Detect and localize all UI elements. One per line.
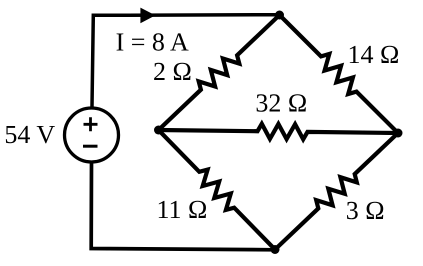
wire: left bottom from source to bottom-left corner, then bottom wire to bottom node bbox=[91, 162, 275, 250]
svg-text:3 Ω: 3 Ω bbox=[346, 196, 385, 225]
svg-text:14 Ω: 14 Ω bbox=[348, 40, 400, 69]
resistor R5 3 ohm (between bottom node and right node) bbox=[275, 133, 398, 250]
svg-text:32 Ω: 32 Ω bbox=[255, 88, 307, 117]
node bottom (junction dot) bbox=[271, 245, 280, 254]
node top (junction dot) bbox=[275, 11, 284, 20]
svg-text:11 Ω: 11 Ω bbox=[157, 195, 208, 224]
current arrow I (on top wire) bbox=[140, 8, 155, 24]
voltage source minus sign bbox=[83, 145, 98, 148]
resistor R1 2 ohm (between left node and top node) bbox=[159, 15, 280, 130]
resistor R4 11 ohm (between left node and bottom node) bbox=[159, 130, 276, 250]
node left (junction dot) bbox=[154, 126, 163, 135]
svg-text:I = 8 A: I = 8 A bbox=[116, 27, 189, 56]
voltage source V1 54 V (circle) bbox=[65, 108, 119, 162]
voltage source plus sign bbox=[84, 117, 98, 131]
svg-text:2 Ω: 2 Ω bbox=[153, 57, 192, 86]
resistor R3 32 ohm (between left node and right node) bbox=[159, 124, 399, 140]
resistor R2 14 ohm (between top node and right node) bbox=[280, 15, 399, 133]
node right (junction dot) bbox=[394, 129, 403, 138]
wire: top from top-left corner to top node bbox=[92, 15, 280, 107]
svg-text:54 V: 54 V bbox=[4, 120, 55, 149]
